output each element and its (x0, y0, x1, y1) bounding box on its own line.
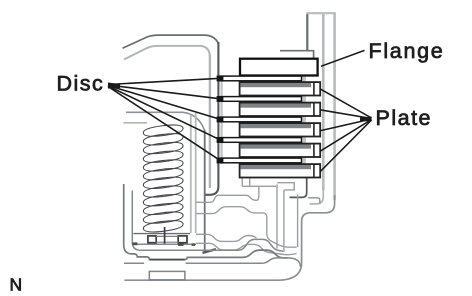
svg-text:N: N (10, 275, 23, 295)
svg-text:Disc: Disc (57, 72, 105, 96)
svg-text:Plate: Plate (376, 106, 433, 130)
svg-text:Flange: Flange (369, 39, 445, 63)
